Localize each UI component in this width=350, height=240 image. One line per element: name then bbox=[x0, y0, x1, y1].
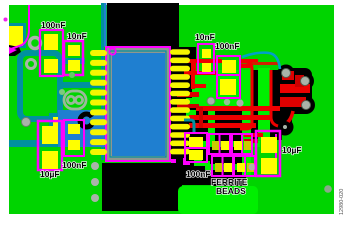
green trace stub pad7 bbox=[186, 110, 196, 117]
capacitor 10uF BL pad 1 bbox=[42, 126, 58, 144]
red trace vertical at right pins bbox=[191, 66, 195, 89]
bright green pour blob around top-right caps bbox=[192, 70, 246, 106]
capacitor C1 pad 1 bbox=[44, 34, 58, 50]
right-of-IC black region column bbox=[171, 47, 196, 178]
IC right pins yellow bbox=[170, 49, 190, 154]
red trace second rail bbox=[271, 70, 278, 126]
teal hook trace right pads bbox=[184, 120, 194, 132]
ferrite bead mid-right divider bbox=[241, 134, 243, 154]
ferrite bead tall outline bbox=[185, 133, 207, 162]
ferrite bead mid-right pads bbox=[234, 141, 242, 150]
mid black region under caps bbox=[196, 70, 282, 140]
svg-text:BEADS: BEADS bbox=[216, 186, 246, 196]
via black C-ring bbox=[80, 114, 92, 127]
via small center bbox=[224, 99, 230, 105]
svg-text:10µF: 10µF bbox=[40, 169, 60, 179]
top center bare-board black region bbox=[107, 3, 179, 47]
green strip trace down to ferrite row bbox=[242, 70, 251, 176]
green strip above beads bbox=[208, 110, 215, 141]
IC U1 courtyard magenta bbox=[106, 47, 170, 161]
capacitor 10uF bottom-left outline bbox=[38, 121, 62, 170]
via near left pads bbox=[59, 89, 65, 95]
capacitor 10nF top-right outline bbox=[198, 44, 214, 73]
svg-text:12980-020: 12980-020 bbox=[339, 189, 345, 215]
svg-text:10µF: 10µF bbox=[282, 145, 302, 155]
via gray ring left of C1 bbox=[30, 38, 41, 49]
magenta trace from top edge bbox=[11, 5, 29, 49]
green elbow trace from 100nF to beads bbox=[194, 155, 210, 166]
blue-cyan trace from 100nF to power blob bbox=[242, 53, 280, 69]
ferrite bead mid-left divider bbox=[219, 134, 221, 154]
ferrite bead mid-left pads bbox=[212, 141, 219, 150]
via gray in blob bbox=[282, 69, 291, 78]
capacitor C1 100nF top-left outline bbox=[40, 30, 63, 76]
via light dot bbox=[69, 72, 75, 78]
via gray in blob bbox=[302, 101, 311, 110]
red trace blob exit bottom bbox=[283, 111, 293, 125]
teal branch through 10nF bbox=[58, 58, 85, 64]
capacitor 10nF TR pad 1 bbox=[202, 49, 211, 58]
teal pad at loop bottom bbox=[49, 113, 66, 130]
wire blue vertical trace at black band edge bbox=[104, 3, 107, 47]
magenta dot left margin bbox=[4, 18, 8, 22]
ferrite bead mid-right outline bbox=[232, 134, 252, 154]
left edge pad with teal border bbox=[9, 23, 26, 48]
capacitor 100nF TR pad 2 bbox=[220, 79, 236, 95]
capacitor 10uF BR pad 1 bbox=[261, 137, 277, 153]
IC U1 blue body bbox=[112, 53, 165, 156]
red trace loop from 100nF down left of blob bbox=[240, 62, 252, 129]
ferrite bead mid-left outline bbox=[209, 134, 230, 154]
capacitor 100nF TR mid bar bbox=[217, 74, 240, 76]
via lower-left column bbox=[91, 162, 99, 170]
svg-text:10nF: 10nF bbox=[195, 32, 215, 42]
capacitor 10uF bottom-right outline bbox=[256, 131, 280, 176]
ferrite bead bot-left outline bbox=[212, 156, 233, 176]
magenta trace near 10uF bbox=[275, 134, 277, 158]
capacitor 100nF top-right outline bbox=[217, 56, 240, 98]
red trace pin to caps row1 bbox=[184, 59, 222, 63]
capacitor 100nF BL pad 1 bbox=[68, 124, 80, 134]
ferrite bead tall pad 2 bbox=[189, 150, 203, 160]
IC U1 inner teal line bbox=[110, 51, 166, 157]
teal trace horizontal into blue region bbox=[9, 140, 62, 147]
capacitor 10nF TR pad 2 bbox=[202, 63, 211, 72]
ferrite bead bot-left divider bbox=[222, 156, 224, 176]
bottom center bare-board black region bbox=[102, 163, 182, 211]
IC left pins yellow bbox=[90, 50, 107, 155]
capacitor 10uF BL pad 2 bbox=[42, 151, 58, 169]
IC U1 pin1 marker bbox=[109, 48, 115, 54]
ferrite bead bot-right outline bbox=[234, 156, 255, 176]
capacitor C1 pad 2 bbox=[44, 59, 58, 73]
capacitor 100nF bottom-left outline bbox=[64, 120, 84, 156]
capacitor 100nF BL pad 2 bbox=[68, 140, 80, 150]
green trace through bottom ferrite row bbox=[205, 164, 250, 170]
power entry black blob top right bbox=[278, 68, 312, 114]
via black ring bottom of blob bbox=[281, 123, 289, 131]
green strip trace down to 10uF bbox=[258, 68, 270, 140]
via right of beads bbox=[249, 164, 256, 171]
ferrite bead bot-left pads bbox=[215, 163, 222, 172]
capacitor C2 pad 2 bbox=[68, 60, 80, 71]
teal branch to IC pad bbox=[58, 82, 102, 88]
magenta tick IC bottom right bbox=[171, 159, 176, 163]
capacitor C2 10nF top-left outline bbox=[64, 41, 83, 75]
logo silkscreen oo bbox=[64, 91, 86, 109]
teal trace ring loop left bbox=[20, 53, 60, 119]
black wedge at left edge bbox=[9, 45, 21, 56]
ferrite-bead zone black region bbox=[196, 106, 258, 140]
red fill inside power blob bbox=[282, 71, 294, 80]
magenta corner tick near pin13 bbox=[184, 158, 190, 164]
ferrite bead bot-right pads bbox=[237, 163, 245, 172]
black tongue under FERRITE text bbox=[213, 150, 246, 186]
svg-text:100nF: 100nF bbox=[41, 20, 66, 30]
svg-text:100nF: 100nF bbox=[62, 160, 87, 170]
red vertical joint bbox=[191, 63, 196, 73]
green trace through middle ferrite row bbox=[196, 141, 260, 147]
thin dark red trace to blob bbox=[252, 62, 280, 65]
green trace stub pad6 bbox=[186, 98, 196, 105]
red exit right of 100nF bbox=[240, 59, 258, 63]
blue plane region bottom left bbox=[58, 110, 105, 147]
red traces to 10uF bbox=[244, 139, 258, 143]
ferrite bead tall divider bbox=[185, 147, 207, 149]
red traces in ferrite zone bbox=[196, 106, 280, 111]
via gray in blob bbox=[301, 77, 310, 86]
svg-text:10nF: 10nF bbox=[67, 31, 87, 41]
red trace pin to caps row2 bbox=[184, 71, 217, 75]
via gray small bbox=[27, 60, 36, 69]
via on green block right of IC bbox=[207, 97, 215, 105]
ferrite bead bot-right divider bbox=[244, 156, 246, 176]
capacitor 10uF BR pad 2 bbox=[261, 158, 277, 174]
bright green pour block bottom bbox=[178, 186, 258, 214]
wire teal vertical trace left of black band bbox=[101, 3, 104, 160]
via right bbox=[236, 99, 243, 106]
svg-text:100nF: 100nF bbox=[186, 169, 211, 179]
via on teal loop corner bbox=[22, 118, 31, 127]
via bottom right bbox=[324, 185, 332, 193]
magenta chevron at left edge bbox=[9, 47, 17, 54]
svg-text:100nF: 100nF bbox=[215, 41, 240, 51]
ferrite bead tall pad 1 bbox=[189, 137, 203, 147]
capacitor 100nF TR pad 1 bbox=[222, 60, 236, 73]
capacitor C2 pad 1 bbox=[68, 45, 80, 56]
